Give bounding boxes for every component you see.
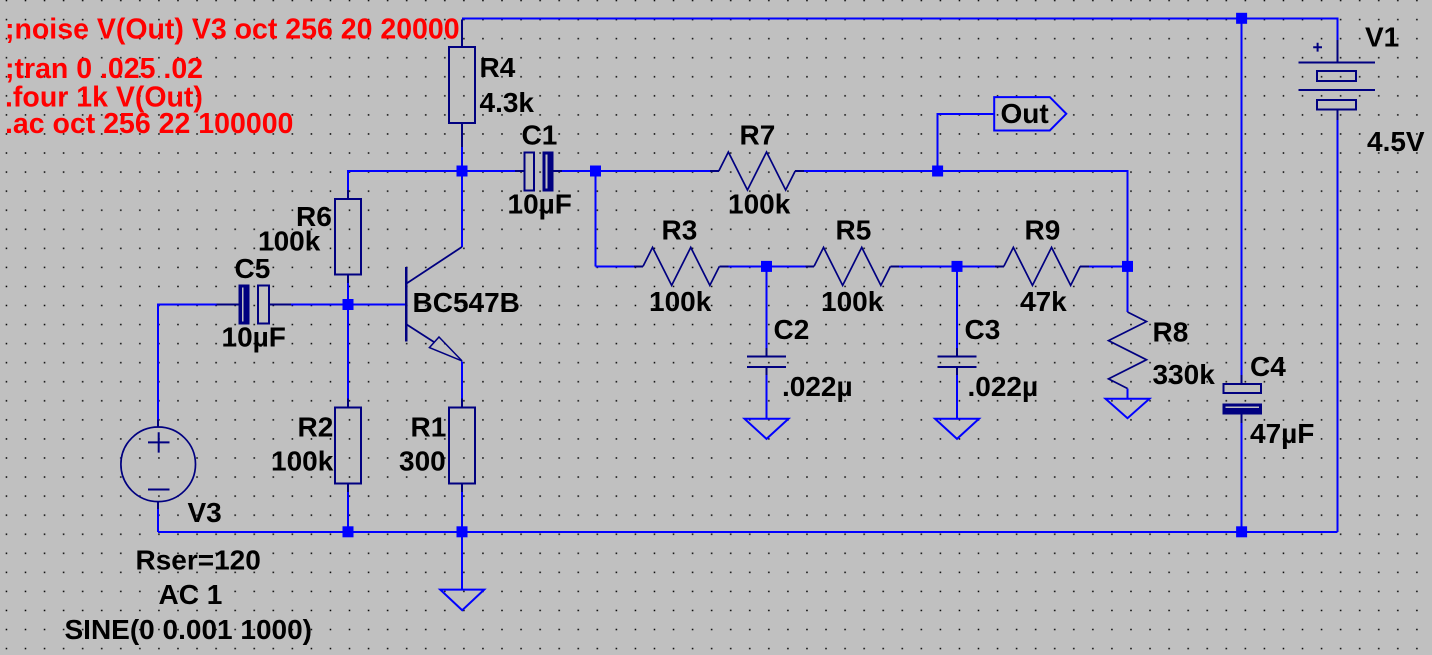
- wire V1 bottom lead: [1336, 120, 1338, 532]
- svg-text:R3: R3: [662, 214, 698, 245]
- flag Out: [994, 97, 1066, 130]
- wire C2 top lead: [766, 266, 768, 348]
- junction top rail C4: [1236, 13, 1247, 24]
- svg-text:V1: V1: [1365, 22, 1399, 53]
- svg-text:4.3k: 4.3k: [480, 87, 535, 118]
- capacitor C5: [216, 284, 291, 324]
- svg-text:4.5V: 4.5V: [1367, 126, 1425, 157]
- wire Out flag to node: [938, 114, 995, 171]
- junction base/C5/R6/R2: [343, 299, 354, 310]
- svg-text:100k: 100k: [821, 286, 884, 317]
- wire collector up: [461, 171, 463, 247]
- wire node down to R3 row: [595, 171, 597, 266]
- svg-text:.ac oct 256 22 100000: .ac oct 256 22 100000: [5, 108, 293, 140]
- ground under R1: [440, 590, 484, 611]
- wire emitter to R1: [461, 362, 463, 399]
- wire bottom rail: [158, 531, 1337, 533]
- resistor R2: [335, 399, 361, 493]
- capacitor C3: [938, 348, 977, 375]
- wire C3 top lead: [956, 266, 958, 348]
- svg-text:R8: R8: [1153, 316, 1189, 347]
- wire R3 to node A: [729, 265, 806, 267]
- resistor R7: [710, 152, 804, 190]
- junction R1 bottom rail: [457, 526, 468, 537]
- wire R2 bottom lead: [347, 492, 349, 532]
- svg-text:330k: 330k: [1153, 359, 1216, 390]
- svg-text:R1: R1: [411, 411, 447, 442]
- wire C1 to R7: [562, 170, 710, 172]
- wire V3 bottom lead: [157, 509, 159, 532]
- svg-text:100k: 100k: [649, 286, 712, 317]
- svg-text:C1: C1: [522, 120, 558, 151]
- svg-text:BC547B: BC547B: [413, 287, 520, 318]
- svg-text:C3: C3: [965, 314, 1001, 345]
- svg-text:C2: C2: [774, 314, 810, 345]
- capacitor C4: [1223, 375, 1262, 423]
- svg-text:10µF: 10µF: [508, 189, 572, 220]
- wire R6 bottom lead: [347, 283, 349, 305]
- svg-text:SINE(0 0.001 1000): SINE(0 0.001 1000): [65, 614, 313, 645]
- capacitor C2: [747, 348, 786, 375]
- voltage source V3: [121, 420, 196, 510]
- wire R1 bottom lead: [461, 492, 463, 532]
- resistor R9: [995, 247, 1089, 285]
- wire R8 to ground: [1127, 389, 1129, 399]
- svg-text:R7: R7: [740, 120, 776, 151]
- svg-text:47µF: 47µF: [1250, 418, 1314, 449]
- junction R4/R6/C1/collector: [457, 166, 468, 177]
- svg-text:Rser=120: Rser=120: [136, 544, 261, 575]
- svg-text:100k: 100k: [728, 189, 791, 220]
- wire R4 bottom to node: [461, 147, 463, 171]
- svg-text:C4: C4: [1250, 351, 1286, 382]
- ground under C2: [745, 419, 789, 439]
- wire V3 top lead: [158, 305, 216, 420]
- svg-text:;noise V(Out) V3 oct 256 20 20: ;noise V(Out) V3 oct 256 20 20000: [5, 14, 460, 46]
- svg-text:.022µ: .022µ: [968, 371, 1039, 402]
- wire C3 to ground: [956, 375, 958, 419]
- svg-text:R4: R4: [480, 52, 516, 83]
- svg-text:R5: R5: [836, 214, 872, 245]
- wire top rail V+: [462, 18, 1337, 40]
- wire C4 bottom lead: [1241, 423, 1243, 532]
- svg-text:300: 300: [399, 446, 446, 477]
- junction R7/Out: [932, 166, 943, 177]
- resistor R4: [449, 19, 475, 147]
- junction R9/R8: [1122, 261, 1133, 272]
- junction R3/R5/C2: [761, 261, 772, 272]
- svg-text:;tran 0 .025 .02: ;tran 0 .025 .02: [5, 53, 203, 85]
- svg-text:R9: R9: [1025, 214, 1061, 245]
- svg-text:.022µ: .022µ: [782, 371, 853, 402]
- wire C5 to base: [291, 304, 405, 306]
- junction C1/R3 drop: [590, 166, 601, 177]
- wire R9 to node C: [1089, 265, 1128, 267]
- svg-text:47k: 47k: [1020, 286, 1067, 317]
- wire R1 node to ground: [461, 532, 463, 590]
- svg-text:100k: 100k: [271, 446, 334, 477]
- capacitor C1: [515, 152, 562, 192]
- transistor Q1 BC547B: [406, 247, 462, 361]
- junction R2 bottom rail: [343, 526, 354, 537]
- resistor R6: [335, 190, 361, 283]
- resistor R1: [449, 399, 475, 493]
- svg-text:R2: R2: [298, 411, 334, 442]
- junction R5/R9/C3: [952, 261, 963, 272]
- resistor R3: [634, 247, 729, 285]
- svg-text:10µF: 10µF: [222, 322, 286, 353]
- ground under R8: [1106, 399, 1150, 419]
- wire base node to R2: [347, 305, 349, 399]
- wire R6 top to collector node: [348, 171, 515, 190]
- wire R7 right to corner down R9 node: [804, 171, 1128, 266]
- wire R5 to node B: [899, 265, 995, 267]
- svg-text:AC 1: AC 1: [159, 579, 223, 610]
- svg-text:V3: V3: [188, 497, 222, 528]
- resistor R8: [1109, 312, 1147, 389]
- wire R3 row left: [596, 265, 635, 267]
- wire top rail down to C4: [1241, 18, 1243, 375]
- wire C2 to ground: [766, 375, 768, 419]
- junction C4 bottom rail: [1236, 526, 1247, 537]
- wire R8 top lead: [1127, 266, 1129, 312]
- ground under C3: [935, 419, 979, 439]
- svg-text:C5: C5: [235, 253, 271, 284]
- battery V1: [1298, 40, 1375, 120]
- resistor R5: [806, 247, 900, 285]
- svg-text:Out: Out: [1001, 98, 1049, 129]
